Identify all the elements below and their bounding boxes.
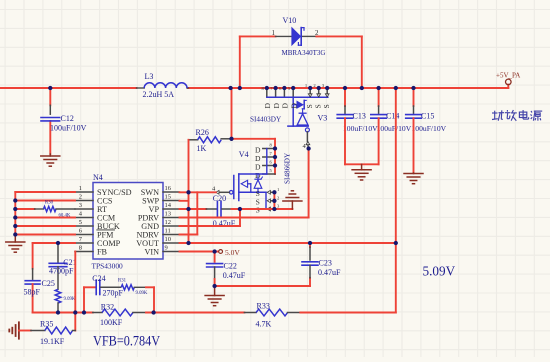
junction at (239.8,88.0) [238,86,242,90]
pin numbers 1 2 3 of V3 [305,83,325,88]
svg-text:SI4403DY: SI4403DY [250,116,282,124]
junction at (275.0,165.5) [273,163,277,167]
svg-text:0.47uF: 0.47uF [223,271,246,280]
svg-text:100uF/10V: 100uF/10V [412,124,447,133]
svg-text:2: 2 [315,29,319,37]
junction at (15.3,226.0) [13,224,17,228]
svg-text:19.1KF: 19.1KF [40,337,65,346]
capacitor C14 [371,115,387,119]
labels D D D D of V3 [263,103,298,109]
ground under C22 [205,286,224,306]
wire C22 node to C23 bottom [215,278,310,286]
wire VIN row [180,251,219,253]
svg-text:R32: R32 [101,302,114,311]
ground under C13/C14 [352,164,371,180]
wire left bus vertical [15,192,75,235]
junction at (230.6,88.0) [228,86,232,90]
svg-text:D: D [281,103,290,109]
svg-text:15: 15 [165,193,172,200]
pin 4 of N4 CCM [75,210,116,222]
junction at (84.0,312.5) [82,310,86,314]
junction at (310.0,243.0) [308,241,312,245]
svg-text:R33: R33 [257,301,270,310]
svg-text:1: 1 [79,185,82,192]
junction at (58.0,243.0) [56,241,60,245]
svg-text:12: 12 [165,219,172,226]
capacitor C20 [206,202,231,216]
capacitor C25 chain [25,269,40,313]
junction at (293.2,88.0) [291,86,295,90]
svg-text:C15: C15 [421,111,434,120]
transistor V4 body [229,174,266,209]
svg-text:+5V_PA: +5V_PA [496,72,520,80]
junction at (188.5,209.0) [186,207,190,211]
wire COMP row [33,243,75,269]
pin 13 of N4 PDRV [138,210,180,222]
svg-text:5.0V: 5.0V [225,248,240,257]
svg-text:C25: C25 [42,279,55,288]
wire bottom row [33,312,93,314]
power port +5V_PA [506,79,512,88]
wire C20 right to V4 source [232,208,275,210]
ground inverted at V4 source [283,191,302,209]
wire VP row to C20 [180,208,207,210]
wire main +5V rail [0,87,508,89]
pin 3 of N4 RT [75,202,107,214]
junction at (266.8,88.0) [265,86,269,90]
svg-text:C20: C20 [213,194,226,203]
wire VOUT node down to R33 row [395,243,397,313]
wire PDRV to V3 gate [180,149,309,218]
wire SWP to vertical A [180,200,189,202]
wire C24 branch left [84,287,95,312]
wire bus to R30 [15,208,34,210]
junction at (214.6,286.0) [212,284,216,288]
junction at (274.4,192.3) [272,190,276,194]
wire V4 source column [273,192,275,209]
capacitor C15 [406,115,422,119]
resistor R34 below C21 [55,289,61,312]
wire V10 loop left [239,36,241,88]
svg-text:V4: V4 [239,150,249,159]
inductor L3 [137,83,189,88]
svg-text:R35: R35 [40,319,53,328]
pin 8 of N4 FB [75,244,108,256]
junction at (188.5,243.0) [186,241,190,245]
junction at (395.8,243.0) [394,241,398,245]
wire C15 lower [413,118,415,173]
junction at (345.0,88.0) [343,86,347,90]
junction at (274.4,209.0) [272,207,276,211]
junction at (239.9,209.0) [238,207,242,211]
capacitor C13 [337,115,353,119]
svg-text:100uF/10V: 100uF/10V [50,123,87,132]
svg-text:C23: C23 [319,259,332,268]
wire V10 loop right [361,36,363,88]
svg-text:13: 13 [165,210,172,217]
pin 14 of N4 VP [149,202,180,214]
wire C13 lower [344,118,346,164]
junction at (378.6,88.0) [376,86,380,90]
svg-text:FB: FB [97,248,108,257]
junction at (275.0,157.0) [273,155,277,159]
capacitor C23 [302,243,318,278]
svg-text:100KF: 100KF [100,318,123,327]
svg-text:0.47uF: 0.47uF [318,268,341,277]
junction at (153.6,312.5) [151,310,155,314]
pin 16 of N4 SWN [141,185,180,197]
pin 10 of N4 VOUT [136,236,179,248]
svg-text:60.4K: 60.4K [59,214,71,219]
svg-text:R30: R30 [45,200,54,205]
wire C15 upper [413,88,415,113]
junction at (15.3,217.5) [13,215,17,219]
svg-text:MBRA340T3G: MBRA340T3G [282,49,326,57]
svg-text:100uF/10V: 100uF/10V [377,124,412,133]
transistor V3 drain pin stubs with rail junctions [267,88,293,96]
capacitor C22 [207,264,223,267]
svg-text:5.09V: 5.09V [423,264,456,279]
pin 11 of N4 NDRV [136,227,179,239]
resistor R35 [31,327,75,334]
wire C22 upper [214,252,216,262]
wire pin 4 to bus [15,217,75,219]
svg-text:5: 5 [79,219,82,226]
wire vertical A SWN/SWP/VP/VOUT [188,192,190,243]
svg-text:270pF: 270pF [103,289,124,298]
svg-text:R26: R26 [196,128,209,137]
ground port left of R35 [9,322,31,338]
pin 4 gate of V3 [303,132,310,150]
diode V10 schottky [292,28,304,46]
svg-text:VIN: VIN [144,248,159,257]
pin numbers 8 7 6 5 of V3 [262,86,291,91]
transistor V3 drain bus and body [267,97,328,132]
svg-text:D: D [272,103,281,109]
junction at (318.7,88.0) [317,86,321,90]
svg-text:S: S [322,104,331,108]
junction at (15.3,200.5) [13,198,17,202]
svg-text:2: 2 [79,193,82,200]
ground under left bus [6,235,25,253]
pin 1 of N4 SYNC/SD [75,185,132,197]
junction at (50.3,88.0) [48,86,52,90]
junction at (231.5,138.8) [229,137,233,141]
pin numbers 1 2 3 of V4 [277,187,280,209]
svg-text:S: S [256,206,260,215]
junction at (310.2,88.0) [308,86,312,90]
svg-text:4.7K: 4.7K [256,320,272,329]
svg-text:TPS43000: TPS43000 [92,262,124,271]
svg-text:4700pF: 4700pF [49,267,74,276]
capacitor C21 chain [49,243,67,289]
svg-text:1K: 1K [197,144,207,153]
junction at (188.5,192.3) [186,190,190,194]
svg-text:D: D [263,103,272,109]
svg-text:N4: N4 [93,173,103,182]
svg-text:8: 8 [79,244,82,251]
svg-text:C13: C13 [353,111,366,120]
svg-text:1: 1 [272,29,276,37]
text 功放电源 [492,110,542,121]
svg-text:9.09K: 9.09K [136,291,148,296]
junction at (58.0,312.5) [56,310,60,314]
transistor V4 drain pin stubs [263,149,275,175]
capacitor C24 [96,280,120,294]
wire FB vertical [74,252,76,331]
svg-text:D: D [289,103,298,109]
wire rail drop to VOUT row [395,88,397,243]
wire R26 right to V4 drains [232,139,276,149]
wire NDRV up and over [180,192,198,234]
svg-text:C24: C24 [92,274,105,283]
wire R33 to VOUT drop [300,312,396,314]
wire R32 to R33 [146,312,244,314]
pin 12 of N4 GND [141,219,179,231]
pin 4 gate of V4 [212,186,229,195]
svg-text:100uF/10V: 100uF/10V [343,124,378,133]
junction at (395.8,88.0) [394,86,398,90]
svg-text:VFB=0.784V: VFB=0.784V [93,333,160,349]
junction at (308.6,148.5) [306,146,310,150]
pin 7 of N4 COMP [75,236,121,248]
transistor V4 source pin stubs [267,190,274,211]
resistor R31 [121,285,146,290]
wire C14 upper [378,88,380,113]
resistor R32 [93,309,146,316]
pin 5 of N4 BUCK [75,219,120,231]
junction at (75.3,312.5) [73,310,77,314]
svg-text:3: 3 [79,202,82,209]
svg-text:9.09K: 9.09K [64,297,76,302]
junction at (15.3,234.5) [13,232,17,236]
junction at (413.5,88.0) [411,86,415,90]
svg-text:C14: C14 [386,111,399,120]
wire GND pin to C20 node [180,209,241,226]
wire rail to R26 right [231,88,233,139]
labels S S S of V4 [256,189,260,215]
wire pin 2 to bus [15,200,75,202]
resistor R30 [35,206,75,211]
svg-text:16: 16 [165,185,172,192]
pin 15 of N4 SWP [142,193,179,205]
wire R26 left down to SWN row [188,140,190,192]
junction at (327.2,88.0) [325,86,329,90]
capacitor C12 [41,118,60,121]
op-amp U1 IC N4 TPS43000 body [93,183,163,260]
svg-text:V10: V10 [283,16,297,25]
transistor V3 source pin stubs with rail junctions [308,88,329,97]
resistor R33 [244,309,300,316]
pin 2 of N4 CCS [75,193,113,205]
junction at (15.3,209.0) [13,207,17,211]
junction at (275.0,148.5) [273,146,277,150]
svg-text:C12: C12 [61,114,74,123]
pin 9 of N4 VIN [144,244,179,256]
labels S S S of V3 [305,104,331,108]
wire C13 upper [344,88,346,113]
power port 5.0V [219,250,223,254]
labels D D D D of V4 [255,145,261,180]
wire pin 5 to bus [15,225,75,227]
wire VOUT row [180,242,396,244]
svg-text:10: 10 [165,236,172,243]
wire C14 lower [378,118,380,164]
svg-text:L3: L3 [145,72,154,81]
junction at (284.4,88.0) [282,86,286,90]
junction at (214.6,251.5) [212,249,216,253]
svg-text:V3: V3 [318,114,328,123]
svg-text:SI4866DY: SI4866DY [284,152,292,184]
transistor V4 drain column wire [274,149,276,175]
wire SWN row to V4 gate [180,191,216,193]
wire source row to ground stub [274,208,292,210]
junction at (361.8,88.0) [360,86,364,90]
pin numbers 8 7 6 5 of V4 [270,143,273,174]
junction at (274.4,200.8) [272,199,276,203]
wire joining C13 C14 bottoms [345,163,379,165]
wire V10 loop top [240,35,362,37]
ground under C15 [404,173,423,184]
ground under C12 [41,154,60,166]
wire R31 right down [146,287,154,312]
wire C22 lower [214,267,216,286]
junction at (275.6,88.0) [273,86,277,90]
svg-text:11: 11 [165,227,171,234]
svg-text:2.2uH 5A: 2.2uH 5A [143,90,175,99]
text VFB=0.784V [93,333,160,349]
pin 6 of N4 PFM [75,227,115,239]
svg-text:C22: C22 [224,261,237,270]
svg-text:14: 14 [165,202,172,209]
wire C12 to rail [49,88,51,154]
svg-text:58pF: 58pF [24,288,41,297]
resistor R26 [189,137,231,143]
wire pin 6 to bus [15,234,75,236]
svg-text:9: 9 [165,244,168,251]
svg-text:R31: R31 [118,279,127,284]
